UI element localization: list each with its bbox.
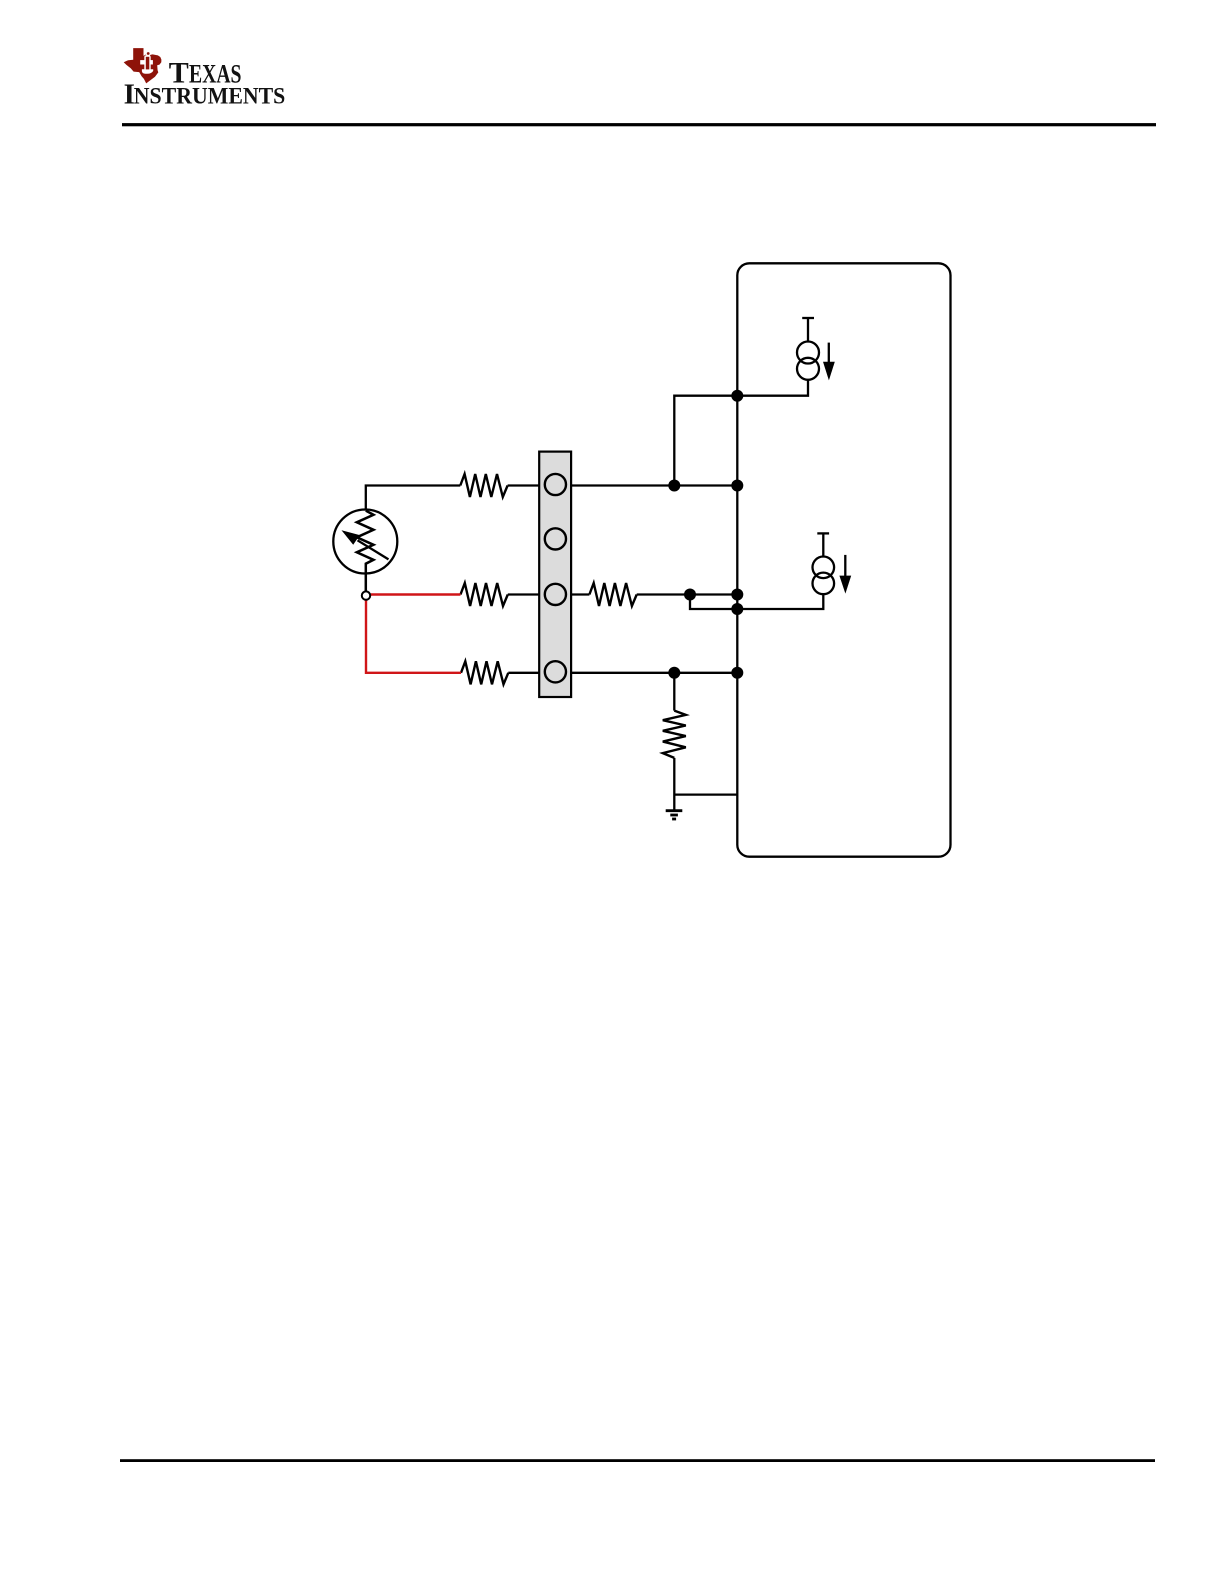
resistor R3 row4	[461, 661, 508, 684]
wire R3 to terminal	[508, 672, 539, 674]
RTD sensor circle	[333, 510, 397, 574]
node row4 at IC	[731, 667, 743, 679]
header rule	[122, 123, 1156, 126]
red wire row3	[371, 593, 461, 595]
RTD arrowhead	[342, 530, 360, 545]
RTD element zigzag	[357, 511, 374, 592]
wire row1 right	[571, 484, 737, 486]
wire R2 to terminal	[508, 593, 539, 595]
current source I2 top bar	[817, 532, 829, 534]
node row1 branch	[668, 480, 680, 492]
wire branch row3 to current source 2	[690, 594, 823, 609]
resistor R4 inline row3	[589, 583, 636, 606]
RTD bottom node	[362, 591, 370, 599]
node row1 at IC	[731, 480, 743, 492]
terminal 1	[545, 474, 566, 495]
IC body U1	[737, 263, 950, 856]
node row3 at IC	[731, 589, 743, 601]
wire row3 black R2	[461, 583, 508, 606]
red sense wires	[366, 595, 461, 673]
schematic	[333, 263, 950, 856]
TI logo Texas state glyph	[124, 48, 162, 83]
RTD arrow line	[358, 540, 389, 559]
node row3 branch	[684, 589, 696, 601]
wire row4 right	[571, 672, 737, 674]
red wire down and row4	[366, 600, 461, 673]
wire R5 to ground	[673, 758, 675, 810]
ground symbol	[666, 809, 683, 812]
current source I2 arrow	[844, 555, 846, 576]
wire row1 left	[366, 486, 461, 511]
wire branch down to bias resistor	[673, 673, 675, 711]
terminal block J1	[539, 452, 571, 697]
svg-text:NSTRUMENTS: NSTRUMENTS	[134, 84, 285, 110]
wire R1 to terminal	[508, 484, 540, 486]
footer rule	[120, 1459, 1155, 1462]
current source I2 circles	[813, 557, 835, 579]
wire branch to current source 1	[674, 380, 808, 486]
wire branch to IC bottom pin	[674, 793, 737, 795]
terminal 2	[545, 528, 566, 549]
current source I1 arrow	[828, 343, 830, 363]
node row4 branch	[668, 667, 680, 679]
resistor R1	[460, 474, 507, 497]
current source I1 stem	[807, 318, 809, 342]
junction dots	[668, 390, 743, 679]
terminal 4	[545, 661, 566, 682]
current source I2 stem	[822, 533, 824, 556]
wire R4 to IC	[637, 593, 738, 595]
wire row3 right of block	[571, 593, 589, 595]
current source I1 circles	[797, 342, 819, 364]
node CS1 wire at IC	[731, 390, 743, 402]
resistor R5 vertical	[663, 711, 686, 758]
node CS2 wire at IC	[731, 603, 743, 615]
terminal 3	[545, 584, 566, 605]
TI logo text TEXAS	[124, 56, 286, 110]
current source I1 top bar	[802, 317, 814, 319]
